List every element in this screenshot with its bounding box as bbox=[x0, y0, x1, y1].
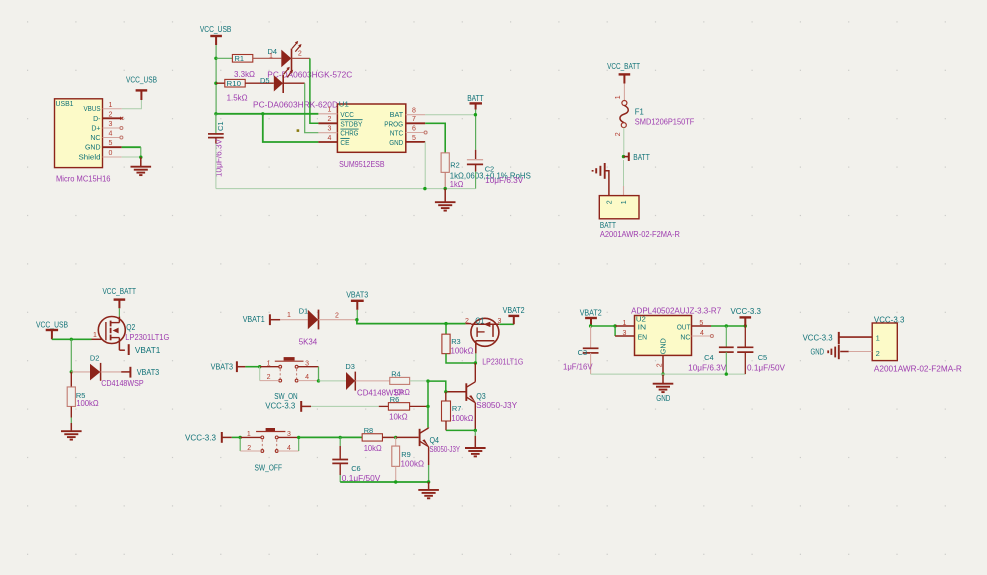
wire R3 to gate junction bbox=[446, 354, 475, 363]
svg-text:S8050-J3Y: S8050-J3Y bbox=[476, 401, 518, 410]
svg-text:R9: R9 bbox=[401, 450, 411, 459]
svg-text:1: 1 bbox=[109, 102, 113, 109]
junction R9 ground bbox=[394, 480, 397, 483]
label VBAT3 (D2) bbox=[121, 371, 130, 373]
wire C1 to gnd net bbox=[215, 144, 217, 189]
wire R8 to Q4 base bbox=[382, 436, 395, 438]
svg-text:3: 3 bbox=[109, 121, 113, 128]
U1 pin 8 BAT bbox=[406, 114, 425, 116]
svg-text:VCC-3.3: VCC-3.3 bbox=[265, 402, 296, 411]
svg-text:VCC_USB: VCC_USB bbox=[36, 320, 68, 329]
svg-text:PC-DA0603HRK-620D: PC-DA0603HRK-620D bbox=[253, 101, 338, 110]
wire gate junction to Q3 collector bbox=[474, 363, 476, 382]
wire Q1 gate down bbox=[475, 353, 477, 363]
svg-text:R6: R6 bbox=[390, 395, 400, 404]
wire VCC-3.3 to SW_OFF bbox=[232, 436, 240, 438]
junction R1 tap bbox=[214, 57, 217, 60]
wire U1 GND pin down bbox=[424, 142, 426, 189]
U2 pin 1 IN bbox=[615, 325, 634, 327]
svg-text:R7: R7 bbox=[452, 404, 462, 413]
svg-text:Q2: Q2 bbox=[126, 323, 135, 332]
U1 pin 3 CHRG bbox=[318, 132, 337, 134]
svg-text:Q4: Q4 bbox=[430, 436, 440, 445]
svg-text:ADPL40502AUJZ-3.3-R7: ADPL40502AUJZ-3.3-R7 bbox=[631, 307, 722, 316]
wire R10 to D5 bbox=[245, 82, 274, 84]
svg-text:GND: GND bbox=[389, 140, 403, 147]
svg-text:CD4148WSP: CD4148WSP bbox=[101, 379, 144, 388]
wire F1 to BATT junction bbox=[623, 128, 625, 157]
wire R9 to ground net bbox=[395, 466, 397, 482]
svg-text:C5: C5 bbox=[758, 353, 768, 362]
wire gate junction down bbox=[70, 339, 72, 372]
wire D1 to VBAT3 junction bbox=[319, 319, 357, 321]
svg-text:LP2301LT1G: LP2301LT1G bbox=[125, 333, 169, 342]
resistor R1 bbox=[232, 55, 252, 63]
resistor R7 bbox=[445, 392, 447, 401]
svg-text:VCC_USB: VCC_USB bbox=[200, 25, 232, 34]
USB1 pin 5 GND bbox=[103, 146, 122, 148]
svg-text:U1: U1 bbox=[339, 100, 349, 109]
svg-text:5K34: 5K34 bbox=[299, 338, 318, 347]
svg-text:VCC_BATT: VCC_BATT bbox=[102, 287, 136, 296]
wire R4 junction down to R6 bbox=[427, 381, 429, 406]
USB1 pin 2 D- bbox=[103, 117, 122, 119]
IC U2 body bbox=[635, 316, 692, 356]
svg-text:1μF/16V: 1μF/16V bbox=[563, 362, 593, 371]
ground symbol (U2) with GND label bbox=[662, 374, 664, 384]
svg-text:1: 1 bbox=[615, 95, 622, 99]
svg-text:C1: C1 bbox=[216, 121, 225, 131]
connector BATT body bbox=[599, 196, 639, 219]
svg-text:D1: D1 bbox=[299, 307, 309, 316]
U1 pin 2 STDBY bbox=[318, 122, 337, 124]
junction GND net bbox=[423, 187, 426, 190]
wire R6 to junction bbox=[410, 405, 428, 407]
svg-text:CE: CE bbox=[340, 140, 349, 147]
junction R2 gnd bbox=[444, 187, 447, 190]
svg-text:VBAT3: VBAT3 bbox=[211, 363, 234, 372]
svg-text:0.1μF/50V: 0.1μF/50V bbox=[747, 363, 786, 372]
ground symbol (USB1) bbox=[140, 157, 142, 167]
resistor R3 bbox=[445, 324, 447, 335]
svg-text:VCC-3.3: VCC-3.3 bbox=[185, 433, 217, 442]
wire Q1 drain to VBAT2 bbox=[499, 323, 514, 325]
resistor R10 bbox=[225, 79, 245, 87]
svg-text:4: 4 bbox=[305, 374, 309, 381]
wire VCC_USB to USB1 pin 1 bbox=[122, 100, 142, 109]
svg-text:SW_ON: SW_ON bbox=[274, 392, 298, 401]
svg-text:IN: IN bbox=[638, 324, 647, 331]
resistor R9 bbox=[395, 437, 397, 446]
transistor Q3 (NPN) bbox=[465, 383, 467, 401]
svg-text:VCC-3.3: VCC-3.3 bbox=[730, 307, 761, 316]
svg-text:VBAT1: VBAT1 bbox=[243, 315, 265, 324]
label VBAT1 (Q2 source) bbox=[119, 349, 125, 351]
svg-text:S8050-J3Y: S8050-J3Y bbox=[430, 445, 461, 454]
wire VBAT3 to Q1 source and R3 bbox=[357, 320, 466, 324]
svg-text:F1: F1 bbox=[635, 108, 645, 117]
U2 pin 2 GND bbox=[662, 355, 664, 374]
svg-text:R2: R2 bbox=[450, 161, 460, 170]
wire VCC-3.3 to R6 bbox=[311, 405, 379, 407]
wire VBAT2 to U2 IN bbox=[591, 325, 615, 327]
junction BATT label bbox=[622, 155, 625, 158]
svg-text:GND: GND bbox=[656, 394, 670, 403]
svg-text:BATT: BATT bbox=[600, 221, 616, 230]
wire VCC rail to U1 VCC pin1 bbox=[216, 113, 318, 115]
junction C4 tap bbox=[725, 324, 728, 327]
svg-text:2: 2 bbox=[657, 363, 664, 367]
connector J body bbox=[872, 323, 897, 361]
junction SW_ON out bbox=[317, 379, 320, 382]
svg-text:1: 1 bbox=[287, 312, 291, 319]
wire VCC_USB vertical rail bbox=[215, 45, 217, 114]
wire C2 to gnd net bbox=[475, 172, 477, 189]
svg-text:100kΩ: 100kΩ bbox=[76, 399, 99, 408]
diode D3 bbox=[346, 372, 355, 390]
marker small square bbox=[297, 129, 300, 132]
svg-text:10kΩ: 10kΩ bbox=[364, 444, 382, 453]
transistor Q1 (P-MOSFET, rotated) bbox=[471, 318, 499, 346]
svg-text:3: 3 bbox=[622, 330, 626, 337]
USB1 pin 1 VBUS bbox=[103, 108, 122, 110]
svg-text:2: 2 bbox=[465, 318, 469, 325]
junction CE branch bbox=[261, 112, 264, 115]
wire junction down to Q4 collector bbox=[427, 406, 429, 427]
svg-text:2: 2 bbox=[607, 200, 614, 204]
USB1 pin 3 D+ bbox=[103, 127, 120, 129]
diode D2 bbox=[90, 364, 100, 381]
resistor R5 bbox=[70, 372, 72, 387]
wire gnd net (regulator) bbox=[591, 373, 746, 375]
wire Q4 emitter to ground net bbox=[428, 465, 430, 482]
svg-text:STDBY: STDBY bbox=[340, 121, 362, 128]
svg-text:VCC-3.3: VCC-3.3 bbox=[803, 334, 834, 343]
junction Q3 emitter / ground bbox=[474, 429, 477, 432]
connector USB1 body bbox=[55, 99, 103, 168]
wire R5 to ground bbox=[70, 407, 72, 418]
label BATT (battery) bbox=[624, 156, 629, 158]
diode D1 bbox=[308, 310, 318, 329]
svg-text:SMD1206P150TF: SMD1206P150TF bbox=[635, 118, 695, 127]
svg-text:5: 5 bbox=[412, 135, 416, 142]
svg-text:1: 1 bbox=[876, 333, 880, 342]
svg-text:R4: R4 bbox=[391, 369, 401, 378]
wire SW_ON pin4 out bbox=[298, 380, 319, 382]
svg-text:GND: GND bbox=[85, 145, 101, 152]
svg-text:1: 1 bbox=[247, 431, 251, 438]
svg-text:C4: C4 bbox=[704, 353, 714, 362]
U1 pin 4 CE bbox=[318, 141, 337, 143]
svg-text:Q1: Q1 bbox=[475, 316, 484, 325]
resistor R4 bbox=[390, 377, 410, 384]
USB1 pin 4 NC bbox=[103, 137, 120, 139]
svg-text:7: 7 bbox=[412, 116, 416, 123]
svg-text:0: 0 bbox=[109, 150, 113, 157]
svg-text:3: 3 bbox=[305, 360, 309, 367]
svg-text:Micro MC15H16: Micro MC15H16 bbox=[56, 175, 111, 184]
junction Q4 emitter ground bbox=[427, 480, 430, 483]
capacitor C3 bbox=[590, 326, 592, 348]
wire D5 to U1 CHRG bbox=[283, 82, 305, 84]
junction C1 tap bbox=[214, 112, 217, 115]
svg-text:PROG: PROG bbox=[384, 121, 403, 128]
ground symbol (R5) bbox=[70, 423, 72, 431]
wire R4 to junction bbox=[410, 380, 428, 382]
svg-text:1: 1 bbox=[622, 320, 626, 327]
capacitor C4 bbox=[725, 326, 727, 347]
junction R6/Q4 collector bbox=[426, 405, 429, 408]
svg-text:100kΩ: 100kΩ bbox=[451, 347, 474, 356]
svg-text:R8: R8 bbox=[364, 426, 374, 435]
svg-text:A2001AWR-02-F2MA-R: A2001AWR-02-F2MA-R bbox=[874, 365, 962, 374]
svg-text:VBAT3: VBAT3 bbox=[346, 291, 368, 300]
wire emitter junction to ground bbox=[474, 430, 476, 435]
wire C6 to ground net bbox=[339, 475, 341, 482]
svg-text:8: 8 bbox=[412, 107, 416, 114]
svg-text:VBAT2: VBAT2 bbox=[503, 306, 525, 315]
IC U1 body bbox=[337, 104, 405, 152]
svg-text:R1: R1 bbox=[235, 54, 245, 63]
junction C3 tap bbox=[589, 324, 592, 327]
wire VCC_USB to Q2 gate bbox=[52, 338, 92, 340]
wire VBAT3 to SW_ON bbox=[245, 366, 259, 368]
switch SW_OFF bbox=[240, 436, 261, 438]
junction C6 tap bbox=[339, 436, 342, 439]
transistor Q2 (P-MOSFET) bbox=[98, 317, 125, 344]
junction SW_ON pins 1-2 bbox=[258, 365, 261, 368]
U2 pin 4 NC bbox=[692, 335, 711, 337]
svg-text:2: 2 bbox=[335, 313, 339, 320]
svg-text:3.3kΩ: 3.3kΩ bbox=[234, 70, 255, 79]
svg-text:VBAT1: VBAT1 bbox=[135, 346, 161, 355]
svg-text:10kΩ: 10kΩ bbox=[389, 412, 408, 421]
svg-text:BATT: BATT bbox=[467, 94, 484, 103]
svg-text:1: 1 bbox=[93, 332, 97, 339]
transistor Q4 (NPN) bbox=[419, 429, 421, 446]
svg-text:R3: R3 bbox=[451, 337, 461, 346]
svg-text:4: 4 bbox=[700, 330, 704, 337]
wire Shield to ground junction bbox=[122, 156, 141, 158]
svg-text:VCC: VCC bbox=[340, 112, 354, 119]
U1 pin 5 GND bbox=[406, 141, 425, 143]
wire GND pin to ground bbox=[122, 146, 141, 148]
resistor R6 bbox=[388, 403, 409, 411]
svg-text:2: 2 bbox=[298, 50, 302, 57]
svg-text:NC: NC bbox=[90, 135, 100, 142]
svg-text:R10: R10 bbox=[227, 79, 242, 88]
wire junction to Q3 base node bbox=[428, 381, 446, 392]
U1 pin 7 PROG bbox=[406, 122, 425, 124]
ground symbol (Q3) bbox=[474, 436, 476, 448]
svg-text:A2001AWR-02-F2MA-R: A2001AWR-02-F2MA-R bbox=[600, 230, 680, 239]
svg-text:C3: C3 bbox=[578, 348, 588, 357]
wire OUT to VCC-3.3 bbox=[711, 325, 745, 327]
capacitor C5 bbox=[744, 326, 746, 347]
junction C5 tap bbox=[744, 324, 747, 327]
capacitor C1 bbox=[215, 114, 217, 134]
svg-text:D-: D- bbox=[93, 116, 101, 123]
svg-text:D2: D2 bbox=[90, 354, 100, 363]
wire D3 to R4 bbox=[355, 380, 389, 382]
svg-text:SW_OFF: SW_OFF bbox=[255, 463, 283, 472]
junction R4/R6 bbox=[426, 379, 429, 382]
LED D5 bbox=[274, 75, 283, 91]
svg-text:2: 2 bbox=[109, 111, 113, 118]
svg-text:USB1: USB1 bbox=[56, 99, 74, 108]
svg-text:Shield: Shield bbox=[79, 155, 101, 162]
USB1 pin 0 Shield bbox=[103, 156, 122, 158]
U2 pin 5 OUT bbox=[692, 325, 712, 327]
junction C4 gnd bbox=[725, 372, 728, 375]
wire to R1 bbox=[216, 57, 232, 59]
fuse F1 bbox=[622, 101, 627, 106]
junction Q1 gate / R3 / Q3 bbox=[474, 361, 477, 364]
resistor R2 bbox=[441, 153, 449, 173]
wire R1 to D4 bbox=[253, 57, 281, 59]
wire BATT to connector pin 1 bbox=[623, 160, 625, 186]
svg-text:OUT: OUT bbox=[677, 324, 691, 331]
svg-text:4: 4 bbox=[109, 131, 113, 138]
wire CE branch bbox=[263, 114, 319, 142]
wire R2 to gnd net bbox=[444, 172, 446, 188]
wire VCC_BATT to Q2 drain bbox=[118, 308, 120, 316]
wire VBAT1 to D1 bbox=[280, 319, 308, 321]
capacitor C2 bbox=[475, 150, 477, 160]
svg-text:VBUS: VBUS bbox=[84, 106, 101, 113]
wire D4 to U1 STDBY bbox=[292, 57, 310, 59]
svg-text:VBAT3: VBAT3 bbox=[137, 368, 160, 377]
svg-text:2: 2 bbox=[876, 349, 880, 358]
wire gnd net horizontal bbox=[216, 188, 476, 190]
junction SW_OFF out bbox=[297, 436, 300, 439]
svg-text:D+: D+ bbox=[91, 126, 100, 133]
svg-text:BAT: BAT bbox=[390, 112, 404, 119]
wire BAT pin to BATT bbox=[425, 114, 475, 116]
wire PROG to R2 bbox=[425, 123, 445, 153]
svg-text:U2: U2 bbox=[636, 314, 646, 323]
svg-text:VCC_BATT: VCC_BATT bbox=[607, 62, 640, 71]
svg-text:2: 2 bbox=[615, 132, 622, 136]
svg-text:GND: GND bbox=[661, 338, 668, 354]
svg-text:5: 5 bbox=[109, 140, 113, 147]
wire SW_OFF to R8/C6 bbox=[299, 436, 341, 438]
LED D4 bbox=[281, 50, 291, 68]
ground symbol (charger) bbox=[444, 189, 446, 203]
junction D2 tap bbox=[70, 370, 73, 373]
wire ground to connector pin 2 bbox=[605, 171, 609, 196]
junction Q3 base / R7 bbox=[444, 390, 447, 393]
svg-text:10μF/6.3V: 10μF/6.3V bbox=[485, 176, 524, 185]
ground symbol (battery, rotated) bbox=[604, 163, 606, 179]
junction USB ground bbox=[139, 156, 142, 159]
junction U2 GND bbox=[661, 372, 664, 375]
svg-text:1: 1 bbox=[269, 53, 273, 60]
svg-text:1: 1 bbox=[328, 107, 332, 114]
wire ground net bottom bbox=[340, 481, 428, 483]
junction R5/D2 tap bbox=[70, 338, 73, 341]
U1 pin 1 VCC bbox=[318, 113, 337, 115]
wire SW_ON to D3 bbox=[319, 380, 347, 382]
svg-text:SUM9512ESB: SUM9512ESB bbox=[339, 160, 385, 169]
wire EN strap bbox=[614, 326, 616, 336]
svg-text:1kΩ: 1kΩ bbox=[450, 180, 464, 189]
svg-text:D3: D3 bbox=[345, 362, 355, 371]
svg-text:1: 1 bbox=[267, 360, 271, 367]
ground symbol (Q4) bbox=[428, 482, 430, 490]
junction R3 tap bbox=[444, 322, 447, 325]
svg-text:GND: GND bbox=[811, 348, 825, 357]
wire SW_OFF pin2 strap bbox=[239, 437, 241, 451]
svg-text:100kΩ: 100kΩ bbox=[401, 459, 425, 468]
wire R7 to emitter ground bbox=[445, 421, 447, 430]
svg-text:NC: NC bbox=[680, 335, 690, 342]
wire BATT down to C2 bbox=[475, 110, 477, 150]
capacitor C6 bbox=[339, 437, 341, 446]
svg-text:1.5kΩ: 1.5kΩ bbox=[227, 93, 248, 102]
svg-text:CHRG: CHRG bbox=[340, 131, 358, 138]
svg-text:C2: C2 bbox=[485, 165, 495, 174]
junction EN strap bbox=[613, 324, 616, 327]
junction SW_OFF pins 1-2 bbox=[239, 436, 242, 439]
U2 pin 3 EN bbox=[615, 335, 634, 337]
svg-text:2: 2 bbox=[328, 116, 332, 123]
junction BAT/BATT bbox=[474, 113, 477, 116]
svg-text:EN: EN bbox=[638, 335, 648, 342]
wire D2 to VBAT3 bbox=[101, 371, 122, 373]
svg-text:VCC_USB: VCC_USB bbox=[126, 76, 157, 85]
svg-text:C6: C6 bbox=[351, 464, 361, 473]
wire SW_OFF pin4 strap bbox=[278, 450, 299, 452]
svg-text:BATT: BATT bbox=[633, 153, 650, 162]
switch SW_ON bbox=[260, 366, 279, 368]
svg-text:3: 3 bbox=[328, 126, 332, 133]
svg-text:VBAT2: VBAT2 bbox=[580, 308, 602, 317]
junction R9 tap bbox=[394, 436, 397, 439]
svg-text:D5: D5 bbox=[260, 76, 270, 85]
wire to R10 bbox=[216, 82, 225, 84]
svg-text:6: 6 bbox=[412, 126, 416, 133]
svg-text:100kΩ: 100kΩ bbox=[451, 414, 473, 423]
junction VBAT3 bbox=[355, 318, 358, 321]
svg-text:5: 5 bbox=[699, 320, 703, 327]
U1 pin 6 NTC bbox=[406, 132, 424, 134]
svg-text:LP2301LT1G: LP2301LT1G bbox=[482, 357, 523, 366]
svg-text:NTC: NTC bbox=[390, 131, 404, 138]
wire VCC_BATT to F1 bbox=[623, 84, 625, 101]
svg-text:10μF/6.3V: 10μF/6.3V bbox=[688, 363, 727, 372]
svg-text:2: 2 bbox=[267, 374, 271, 381]
svg-text:4: 4 bbox=[328, 135, 332, 142]
junction R10 tap bbox=[214, 82, 217, 85]
svg-text:1: 1 bbox=[621, 200, 628, 204]
resistor R8 bbox=[362, 434, 382, 441]
wire SW_ON pin2 strap bbox=[259, 367, 261, 381]
wire to R8 bbox=[340, 436, 362, 438]
svg-text:3: 3 bbox=[287, 431, 291, 438]
wire to D2 bbox=[71, 371, 90, 373]
